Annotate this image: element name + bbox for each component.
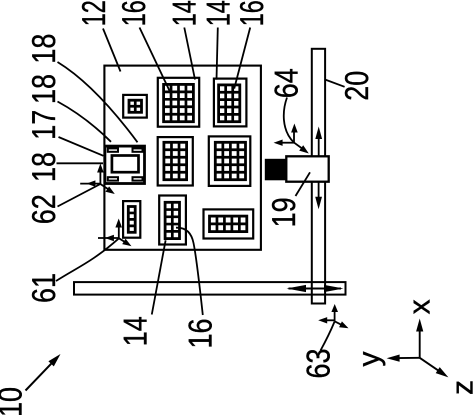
- leader 18 first: [58, 62, 138, 142]
- component F bottom-left: [123, 201, 140, 238]
- axis z arrow: [420, 358, 449, 378]
- cluster 62: diagonal arrow: [100, 184, 114, 194]
- svg-text:18: 18: [25, 34, 62, 64]
- leader 16 top-left: [140, 28, 172, 95]
- bottom rail: [74, 282, 346, 295]
- component G bottom-middle 14/16: [159, 196, 186, 245]
- svg-text:17: 17: [25, 110, 62, 140]
- slider 19: [286, 156, 328, 181]
- component 17 center rect: [112, 156, 139, 173]
- cluster 63: leader curve: [321, 322, 335, 351]
- cluster 62: left arrow: [80, 180, 100, 186]
- svg-text:61: 61: [25, 273, 62, 303]
- cluster 62: up arrow: [97, 164, 104, 185]
- pad 18 top-right: [133, 148, 143, 151]
- leader 18 third horizontal: [57, 162, 104, 164]
- svg-text:y: y: [353, 352, 386, 367]
- cluster 63: up arrow: [331, 304, 338, 321]
- pad 18 bottom-left: [108, 177, 118, 180]
- component B top-middle 14/16: [158, 78, 199, 127]
- cluster 62: leader: [58, 184, 101, 207]
- board 12 outline: [104, 66, 261, 250]
- svg-text:x: x: [403, 299, 436, 314]
- double arrow inside bottom rail: [287, 285, 344, 292]
- cluster 63: diagonal arrow: [335, 321, 349, 328]
- svg-text:14: 14: [166, 0, 203, 26]
- leader 19: [296, 172, 311, 196]
- leader 12: [103, 29, 121, 72]
- arrow down inside rail below slider: [315, 182, 322, 210]
- leader 18 second: [58, 102, 112, 142]
- arrow 10: [26, 354, 61, 391]
- leader 14 top-right: [217, 28, 218, 80]
- axis x arrow: [416, 319, 423, 358]
- svg-text:62: 62: [25, 194, 62, 224]
- leader 17: [59, 137, 104, 156]
- svg-text:10: 10: [0, 387, 29, 415]
- svg-text:64: 64: [267, 68, 304, 98]
- cluster 64: up arrow: [291, 124, 298, 143]
- cluster 61: diagonal arrow: [119, 238, 132, 246]
- cluster 64: leader curve with arrow: [284, 98, 309, 154]
- component H bottom-right: [204, 209, 254, 238]
- cluster 61: left arrow: [98, 235, 119, 241]
- black block on slider 19: [265, 159, 287, 181]
- pad 18 top-left: [108, 148, 118, 151]
- svg-text:z: z: [446, 380, 474, 395]
- component C top-right 14/16: [214, 79, 247, 127]
- vertical rail 20: [312, 49, 325, 304]
- svg-text:63: 63: [299, 349, 336, 379]
- cluster 64: left arrow: [274, 140, 294, 146]
- arrow up inside rail above slider: [315, 127, 322, 157]
- leader 20: [325, 79, 345, 86]
- svg-text:16: 16: [182, 319, 219, 349]
- component A small square: [123, 95, 147, 118]
- svg-text:14: 14: [200, 0, 237, 26]
- leader 14 bottom: [152, 240, 166, 314]
- component 17 body: [105, 146, 145, 183]
- leader 16 bottom: [176, 228, 203, 315]
- svg-text:16: 16: [115, 0, 152, 26]
- component D mid-center: [158, 137, 193, 185]
- leader 14 top-left: [184, 28, 195, 80]
- cluster 61: leader curve: [56, 238, 119, 281]
- axis y arrow: [387, 355, 420, 362]
- svg-text:16: 16: [233, 0, 270, 26]
- cluster 63: left arrow: [318, 317, 334, 323]
- svg-text:19: 19: [265, 197, 302, 227]
- svg-text:18: 18: [25, 74, 62, 104]
- svg-text:14: 14: [117, 316, 154, 346]
- component E mid-right: [209, 136, 251, 186]
- pad 18 bottom-right: [133, 177, 143, 180]
- leader 16 top-right: [234, 28, 250, 89]
- svg-text:12: 12: [75, 0, 112, 26]
- cluster 61: up arrow: [115, 219, 122, 239]
- svg-text:18: 18: [25, 152, 62, 182]
- svg-text:20: 20: [338, 71, 375, 101]
